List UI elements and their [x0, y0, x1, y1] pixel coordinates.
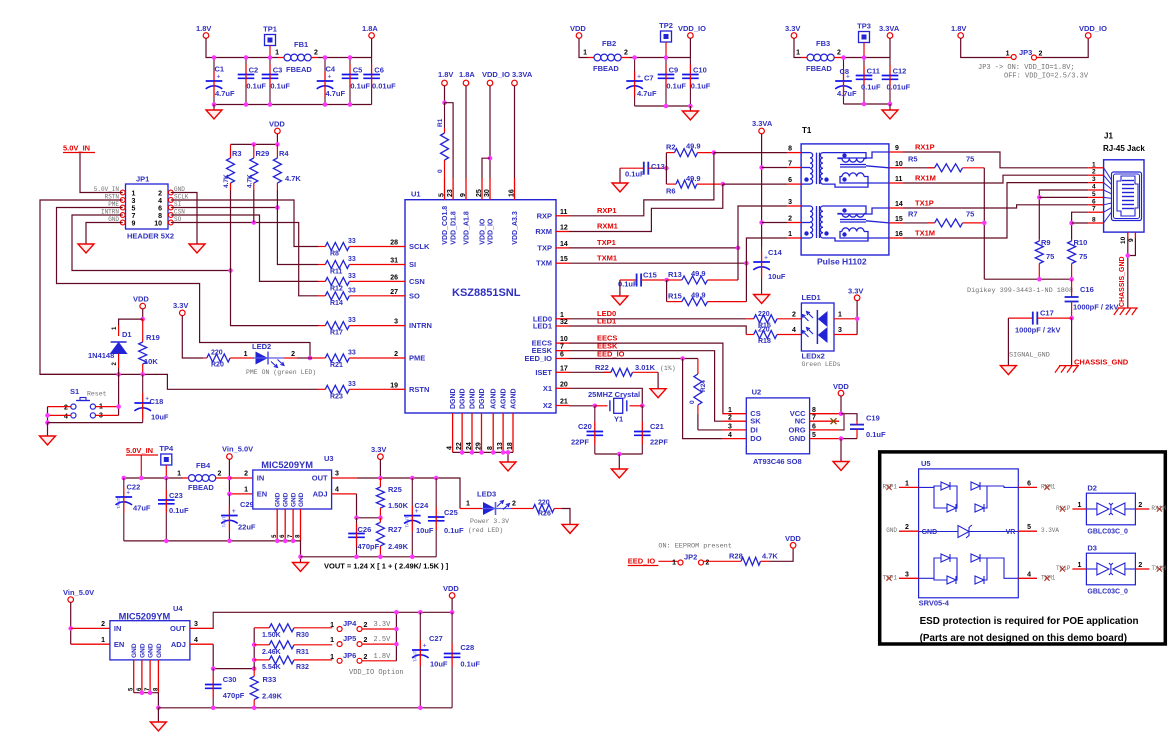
- svg-text:2.5V: 2.5V: [374, 636, 392, 644]
- resistor R29 4.7K: [247, 144, 270, 190]
- svg-text:3: 3: [788, 199, 792, 206]
- svg-text:VDD_IO: VDD_IO: [482, 70, 510, 79]
- wire 3.3V to FB3: [794, 38, 801, 57]
- junction: [68, 626, 73, 631]
- resistor R25 1.50K: [376, 478, 408, 518]
- svg-text:GND: GND: [298, 492, 305, 507]
- svg-text:AGND: AGND: [501, 388, 508, 409]
- svg-text:2: 2: [394, 351, 398, 358]
- svg-text:0.01uF: 0.01uF: [372, 82, 396, 91]
- svg-text:0.01uF: 0.01uF: [887, 83, 911, 92]
- svg-text:22PF: 22PF: [571, 438, 589, 447]
- wire C13 gnd: [619, 168, 621, 183]
- wire FB1 pin2 stub: [311, 57, 318, 59]
- svg-text:C15: C15: [643, 271, 657, 280]
- power port VDD_IO (FB2): [678, 24, 706, 38]
- power port 3.3VA (T1): [752, 119, 773, 134]
- junction: [378, 555, 383, 560]
- jumper JP2: [672, 553, 709, 567]
- junction: [323, 102, 328, 107]
- svg-text:C26: C26: [358, 525, 372, 534]
- wire JP3 to VDD_IO: [1042, 38, 1088, 57]
- svg-text:C6: C6: [374, 66, 384, 75]
- wire JP3 stub1: [1006, 57, 1011, 59]
- svg-text:GND: GND: [922, 529, 938, 536]
- wire FB4 stub1: [182, 477, 189, 479]
- wire RXP1 net: [569, 153, 714, 216]
- svg-text:2: 2: [291, 351, 295, 358]
- capacitor C2 0.1uF: [238, 58, 267, 105]
- note VOUT formula: [324, 562, 449, 571]
- svg-text:17: 17: [560, 365, 568, 372]
- svg-text:D3: D3: [1087, 544, 1097, 553]
- svg-text:2.49K: 2.49K: [388, 542, 409, 551]
- wire J1 pin8 stub wire: [1072, 222, 1089, 224]
- junction: [45, 420, 50, 425]
- connector J1 RJ-45 jack: [1088, 132, 1145, 245]
- svg-text:5.0V_IN: 5.0V_IN: [126, 446, 153, 455]
- svg-text:DO: DO: [750, 434, 761, 443]
- junction: [664, 278, 669, 283]
- svg-text:2: 2: [792, 312, 796, 319]
- resistor R31 2.46K: [254, 641, 332, 656]
- svg-text:VDD_IO: VDD_IO: [1079, 24, 1107, 33]
- wire ADJ stub: [332, 493, 357, 495]
- wire U4 ADJ stub: [190, 643, 213, 645]
- junction: [470, 450, 475, 455]
- svg-text:2: 2: [364, 622, 368, 629]
- wire IN stub: [229, 477, 252, 479]
- IC U3 MIC5209YM: [244, 454, 339, 541]
- svg-text:IN: IN: [257, 474, 265, 483]
- resistor R15 49.9: [667, 291, 747, 306]
- wire TX1P to J1 pin6: [903, 205, 1088, 208]
- junction: [1037, 195, 1042, 200]
- svg-text:1.8V: 1.8V: [196, 24, 211, 33]
- svg-text:R21: R21: [330, 362, 343, 369]
- junction: [164, 476, 169, 481]
- wire U3 lower gnd rail: [301, 556, 437, 558]
- IC U5 pin 2 GND: [886, 524, 918, 534]
- junction: [839, 436, 844, 441]
- svg-text:C7: C7: [644, 74, 654, 83]
- svg-text:C16: C16: [1080, 285, 1094, 294]
- junction: [244, 102, 249, 107]
- svg-text:8: 8: [812, 407, 816, 414]
- svg-text:C5: C5: [353, 66, 363, 75]
- svg-text:MIC5209YM: MIC5209YM: [261, 460, 313, 470]
- junction: [394, 610, 399, 615]
- svg-text:TXM: TXM: [536, 259, 552, 268]
- svg-text:GBLC03C_0: GBLC03C_0: [1087, 588, 1128, 595]
- power port Vin_5.0V (U4): [63, 588, 94, 602]
- wire C19 bottom to GND pin: [841, 438, 857, 440]
- power port VDD (FB2): [570, 24, 586, 38]
- svg-text:C12: C12: [893, 67, 907, 76]
- wire RSTN net: [40, 200, 123, 374]
- svg-text:C20: C20: [578, 422, 592, 431]
- junction: [211, 666, 216, 671]
- wire bottom rail (FB2 block): [635, 105, 691, 107]
- svg-text:33: 33: [348, 238, 356, 245]
- svg-text:U2: U2: [752, 388, 762, 397]
- wire gnd stem FB3: [889, 104, 891, 110]
- junction: [841, 55, 846, 60]
- transformer T1 left pin stubs: [787, 146, 801, 238]
- junction: [759, 165, 764, 170]
- ferrite bead FB4: [177, 461, 221, 492]
- resistor R12 33 (CSN): [318, 273, 392, 293]
- svg-text:26: 26: [390, 274, 398, 281]
- svg-text:1: 1: [672, 560, 676, 567]
- svg-text:75: 75: [966, 155, 974, 164]
- svg-text:C4: C4: [326, 65, 336, 74]
- svg-text:33: 33: [348, 256, 356, 263]
- svg-text:S1: S1: [70, 387, 79, 396]
- svg-text:2: 2: [837, 50, 841, 57]
- wire TP1 to rail: [269, 46, 271, 58]
- svg-text:25: 25: [476, 189, 483, 197]
- wire gnd stem: [213, 105, 215, 111]
- ESD box frame: [880, 452, 1166, 644]
- power port 1.8V (top-left): [196, 24, 211, 38]
- wire C17 to signal gnd: [1007, 318, 1009, 366]
- svg-text:(1%): (1%): [660, 365, 676, 372]
- resistor R8 33 (SCLK): [318, 238, 392, 258]
- connector JP1 HEADER 5X2: [94, 175, 189, 241]
- capacitor C9 0.1uF: [658, 58, 687, 107]
- svg-text:49.9: 49.9: [691, 269, 706, 278]
- svg-text:2: 2: [158, 190, 162, 197]
- resistor R17 33 (INTRN): [318, 317, 392, 337]
- resistor R30 1.50K: [254, 624, 332, 639]
- svg-text:2: 2: [1039, 51, 1043, 58]
- ground (U4): [150, 722, 166, 731]
- diode D1 1N4148: [88, 325, 132, 368]
- svg-text:4.7uF: 4.7uF: [326, 89, 346, 98]
- svg-text:1.8V: 1.8V: [438, 70, 453, 79]
- svg-text:VOUT = 1.24 X [ 1 + ( 2.49K/ 1: VOUT = 1.24 X [ 1 + ( 2.49K/ 1.5K ) ]: [324, 562, 449, 571]
- svg-text:1.50K: 1.50K: [262, 632, 281, 639]
- svg-text:3: 3: [394, 319, 398, 326]
- capacitor C12 0.01uF: [882, 58, 911, 105]
- capacitor C8 4.7uF: [835, 58, 857, 105]
- svg-text:C17: C17: [1040, 309, 1054, 318]
- wire TXM1 net: [569, 262, 746, 264]
- net label TX1M: [915, 229, 935, 238]
- svg-text:R14: R14: [330, 300, 343, 307]
- IC U5 pin 4 TXM1: [1018, 571, 1056, 581]
- svg-text:49.9: 49.9: [686, 174, 701, 183]
- ground (LED3): [562, 524, 578, 533]
- svg-text:C3: C3: [273, 66, 283, 75]
- junction: [688, 104, 693, 109]
- svg-text:3.3V: 3.3V: [173, 301, 188, 310]
- svg-text:22PF: 22PF: [650, 438, 668, 447]
- svg-text:CHASSIS_GND: CHASSIS_GND: [1074, 358, 1129, 367]
- svg-text:R10: R10: [1074, 238, 1088, 247]
- capacitor C10 0.1uF: [682, 58, 711, 107]
- wire RXM1 net: [569, 184, 723, 231]
- note ESD line2: [920, 633, 1127, 644]
- junction: [418, 610, 423, 615]
- power port 3.3V (LED1): [848, 287, 863, 301]
- wire D1 bottom to rail: [118, 368, 120, 374]
- wire 5.0V_IN to JP1 pin1: [80, 153, 123, 193]
- svg-text:0.1uF: 0.1uF: [270, 82, 290, 91]
- TVS diode D2 GBLC03C: [1056, 484, 1166, 536]
- wire RX1M to J1 pin2: [903, 175, 1088, 183]
- svg-text:12: 12: [560, 225, 568, 232]
- capacitor C29 22uF: [221, 494, 256, 541]
- svg-text:AT93C46 SO8: AT93C46 SO8: [753, 457, 802, 466]
- svg-text:4: 4: [64, 413, 68, 420]
- svg-text:GND: GND: [283, 492, 290, 507]
- wire OUT rail: [357, 478, 460, 509]
- svg-text:1.8A: 1.8A: [459, 70, 475, 79]
- chassis ground (C16/C17): [1055, 366, 1079, 373]
- svg-text:RXP: RXP: [537, 211, 552, 220]
- resistor R10 75: [1068, 238, 1088, 279]
- junction: [1037, 277, 1042, 282]
- junction: [982, 221, 987, 226]
- IC U5 SRV05-4: [919, 459, 1019, 608]
- ground (U2): [833, 462, 849, 471]
- svg-text:9: 9: [460, 193, 467, 197]
- svg-text:7: 7: [812, 415, 816, 422]
- svg-text:ESD protection is required for: ESD protection is required for POE appli…: [920, 616, 1139, 627]
- svg-text:C10: C10: [693, 66, 707, 75]
- junction: [418, 706, 423, 711]
- wire VDD to FB2: [579, 38, 588, 57]
- svg-text:FB4: FB4: [196, 461, 211, 470]
- svg-text:6: 6: [560, 352, 564, 359]
- junction: [1126, 253, 1131, 258]
- wire U2 gnd stem: [840, 439, 842, 462]
- svg-text:47uF: 47uF: [133, 504, 151, 513]
- capacitor C3 0.1uF: [262, 58, 291, 105]
- svg-text:0.1uF: 0.1uF: [861, 83, 881, 92]
- svg-text:9: 9: [132, 220, 136, 227]
- wire TXP1 net: [569, 247, 738, 249]
- wire U3 gnd rail: [124, 541, 301, 563]
- ground (JP1 pin9): [78, 244, 94, 253]
- junction: [348, 55, 353, 60]
- svg-text:LED2: LED2: [252, 342, 271, 351]
- power port VDD_IO (JP3): [1079, 24, 1107, 38]
- svg-text:1: 1: [560, 312, 564, 319]
- wire gnd stem FB2: [689, 106, 691, 111]
- svg-text:3.3VA: 3.3VA: [1041, 527, 1059, 534]
- junction: [140, 690, 145, 695]
- svg-text:C24: C24: [415, 501, 430, 510]
- svg-text:4: 4: [728, 432, 732, 439]
- junction: [354, 555, 359, 560]
- junction: [227, 492, 232, 497]
- svg-text:75: 75: [966, 210, 974, 219]
- transformer T1 Pulse H1102: [801, 126, 889, 267]
- wire VDD pullup rail: [231, 134, 278, 145]
- svg-text:0.1uF: 0.1uF: [169, 506, 189, 515]
- svg-text:VR: VR: [1006, 529, 1016, 536]
- power port 3.3VA (FB3): [879, 24, 900, 38]
- svg-text:2: 2: [788, 216, 792, 223]
- junction: [479, 450, 484, 455]
- power port 1.8V (JP3): [951, 24, 966, 38]
- svg-text:R12: R12: [330, 285, 343, 292]
- capacitor C30 470pF: [205, 669, 245, 708]
- svg-text:6: 6: [158, 205, 162, 212]
- svg-text:10K: 10K: [144, 357, 158, 366]
- IC U4 MIC5209YM: [101, 604, 198, 693]
- svg-text:U1: U1: [411, 190, 421, 199]
- junction: [139, 476, 144, 481]
- svg-text:GND: GND: [148, 643, 155, 658]
- svg-text:R1: R1: [437, 118, 444, 127]
- capacitor C16 1000pF/2kV: [1065, 279, 1119, 318]
- svg-text:1: 1: [1006, 51, 1010, 58]
- svg-text:+: +: [423, 643, 427, 650]
- wire rail right of FB1: [318, 57, 372, 59]
- wire C18 bottom rail: [48, 422, 143, 424]
- svg-text:1: 1: [1077, 562, 1081, 569]
- svg-text:U4: U4: [173, 604, 183, 613]
- wire FB3 stub2: [834, 57, 843, 59]
- svg-text:+: +: [232, 508, 236, 515]
- junction: [410, 555, 415, 560]
- note VDD_IO Option: [349, 669, 404, 677]
- svg-text:3.3VA: 3.3VA: [512, 70, 533, 79]
- note JP3 option text: [978, 64, 1089, 81]
- capacitor C20 22PF: [571, 406, 603, 454]
- power port 1.8V (U1): [438, 70, 453, 86]
- svg-text:R2: R2: [666, 143, 676, 152]
- wire S1 left down: [47, 407, 49, 423]
- svg-text:VDD: VDD: [269, 120, 285, 129]
- resistor R24 0 ohm: [689, 359, 707, 430]
- junction: [450, 610, 455, 615]
- svg-text:TXP: TXP: [537, 243, 552, 252]
- svg-text:C2: C2: [249, 66, 259, 75]
- svg-text:FB3: FB3: [816, 39, 830, 48]
- power port VDD_IO (U1): [482, 70, 510, 86]
- junction: [354, 516, 359, 521]
- resistor R1 0 ohm: [437, 103, 449, 178]
- wire INTRN net: [72, 215, 231, 271]
- svg-text:1000pF / 2kV: 1000pF / 2kV: [1015, 326, 1060, 335]
- junction: [140, 317, 145, 322]
- svg-text:JP2: JP2: [684, 553, 697, 562]
- svg-text:U3: U3: [324, 454, 334, 463]
- junction: [275, 205, 280, 210]
- svg-text:R5: R5: [908, 155, 918, 164]
- wire R6 node to T1 pin6: [723, 183, 788, 185]
- net label 5.0V_IN: [63, 144, 95, 153]
- svg-text:3: 3: [905, 571, 909, 578]
- net label EED_IO: [597, 349, 625, 358]
- ferrite bead FB3: [796, 39, 841, 73]
- net label LED0: [597, 309, 616, 318]
- note ON: EEPROM present: [658, 543, 731, 551]
- svg-text:Green LEDs: Green LEDs: [802, 361, 841, 368]
- svg-text:19: 19: [390, 382, 398, 389]
- junction: [227, 476, 232, 481]
- svg-text:C27: C27: [429, 634, 443, 643]
- junction: [212, 102, 217, 107]
- test point TP1: [263, 25, 277, 46]
- wire VDD reset col: [142, 309, 144, 319]
- net label TXM1 (U1 side): [597, 254, 617, 263]
- wire EN stub: [229, 493, 252, 495]
- power port 3.3V (LED2): [173, 301, 188, 316]
- svg-text:2: 2: [905, 524, 909, 531]
- svg-text:LED1: LED1: [597, 317, 616, 326]
- LED LED1 dual green: [792, 293, 857, 368]
- svg-text:GBLC03C_0: GBLC03C_0: [1087, 528, 1128, 535]
- svg-text:2: 2: [218, 471, 222, 478]
- wire U4 OUT net: [190, 612, 452, 628]
- svg-text:ISET: ISET: [535, 368, 552, 377]
- junction: [617, 452, 622, 457]
- power port VDD (U4 out): [443, 584, 459, 598]
- svg-text:C21: C21: [650, 422, 664, 431]
- wire U4 ADJ rail: [213, 644, 254, 668]
- IC U5 pin 5 3.3VA: [1018, 524, 1059, 534]
- svg-text:0.1uF: 0.1uF: [444, 526, 464, 535]
- svg-text:3: 3: [335, 471, 339, 478]
- svg-text:8: 8: [487, 446, 494, 450]
- resistor R16 220: [746, 311, 801, 330]
- IC U5 pin 6 RXM1: [1018, 480, 1056, 490]
- svg-text:33: 33: [348, 273, 356, 280]
- svg-text:VDD_IO: VDD_IO: [488, 218, 495, 245]
- svg-text:1: 1: [330, 637, 334, 644]
- svg-text:33: 33: [348, 317, 356, 324]
- svg-text:1: 1: [330, 622, 334, 629]
- svg-text:2: 2: [364, 654, 368, 661]
- junction: [488, 156, 493, 161]
- svg-text:TX1M: TX1M: [915, 229, 935, 238]
- svg-text:49.9: 49.9: [686, 142, 701, 151]
- chassis ground (J1 shield): [1114, 308, 1138, 315]
- capacitor C27 10uF: [412, 612, 448, 708]
- svg-text:Power 3.3V: Power 3.3V: [470, 518, 509, 525]
- junction: [211, 706, 216, 711]
- svg-text:1: 1: [330, 654, 334, 661]
- svg-text:EED_IO: EED_IO: [524, 354, 552, 363]
- svg-text:X2: X2: [543, 401, 552, 410]
- wire VDD to U2 VCC: [840, 396, 842, 414]
- wire 1.8A to rail: [371, 38, 373, 57]
- svg-text:R30: R30: [296, 632, 309, 639]
- svg-text:1: 1: [788, 231, 792, 238]
- ferrite bead FB2: [583, 39, 628, 73]
- svg-text:4.7K: 4.7K: [223, 174, 230, 188]
- svg-text:TANT: TANT: [221, 516, 226, 528]
- svg-text:4.7uF: 4.7uF: [637, 89, 657, 98]
- svg-text:LED1: LED1: [533, 322, 552, 331]
- svg-text:C18: C18: [150, 397, 164, 406]
- junction: [491, 450, 496, 455]
- power port 1.8A: [362, 24, 378, 38]
- svg-text:1: 1: [177, 471, 181, 478]
- net label RXM1 (U1 side): [597, 222, 618, 231]
- wire U4 OUT stub: [190, 627, 213, 629]
- wire FB2 rail: [629, 57, 690, 59]
- svg-text:1.8V: 1.8V: [951, 24, 966, 33]
- resistor R9 75: [1035, 238, 1054, 279]
- wire VDD_IO col: [489, 86, 491, 178]
